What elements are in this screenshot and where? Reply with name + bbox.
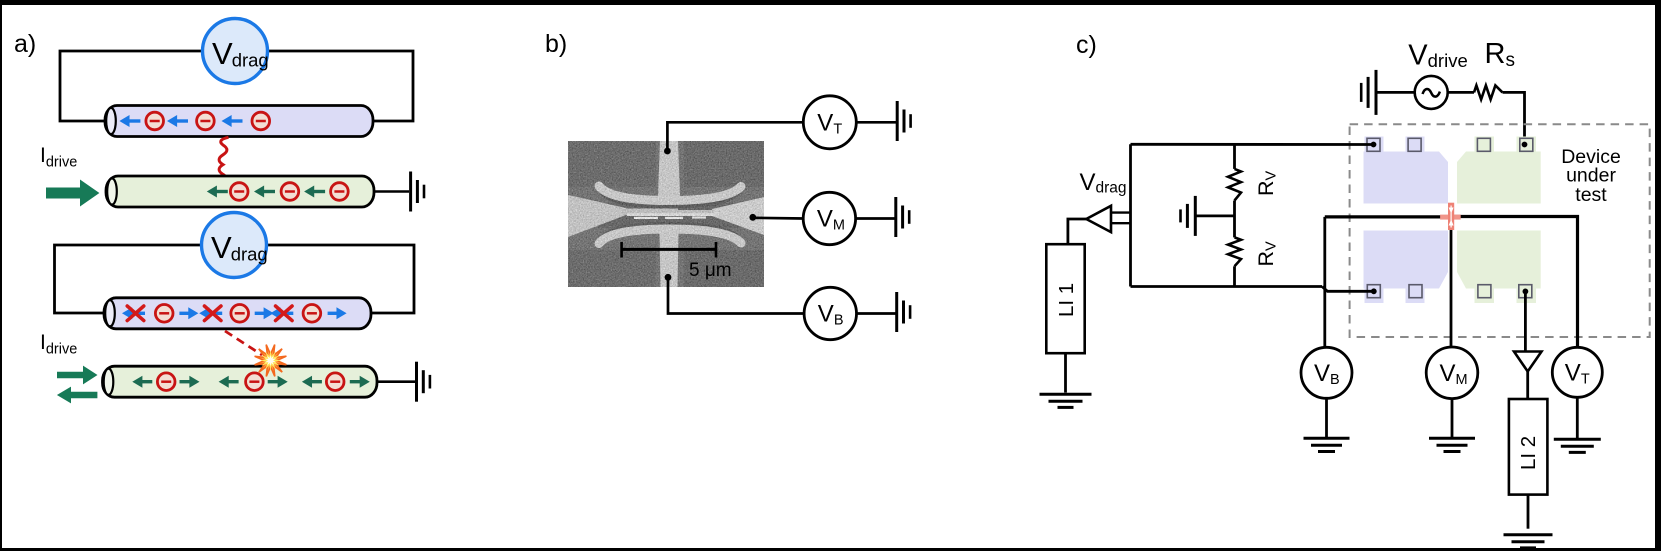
svg-text:a): a) — [14, 30, 36, 58]
svg-text:5 μm: 5 μm — [689, 260, 732, 281]
svg-text:LI 2: LI 2 — [1517, 436, 1540, 470]
svg-text:LI 1: LI 1 — [1055, 283, 1078, 317]
svg-text:c): c) — [1076, 31, 1097, 59]
svg-text:test: test — [1575, 184, 1607, 206]
svg-text:b): b) — [545, 30, 567, 58]
